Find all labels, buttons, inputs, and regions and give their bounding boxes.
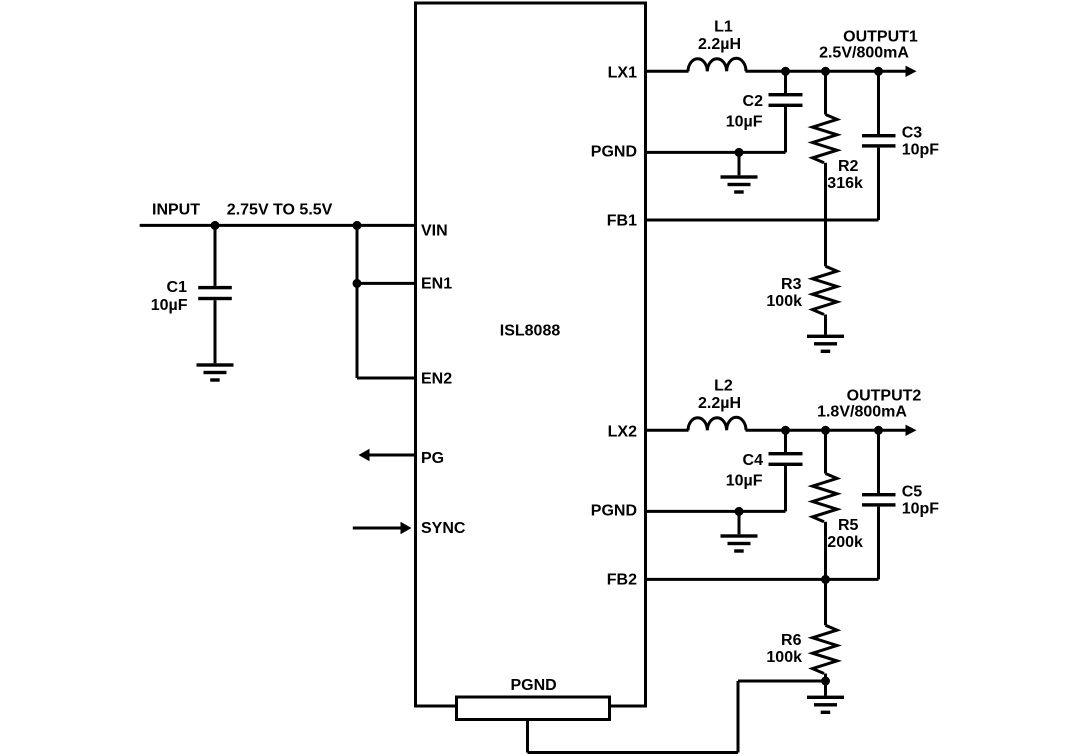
svg-text:2.2µH: 2.2µH	[698, 395, 741, 412]
wire FB1	[646, 219, 879, 222]
inductor L1	[688, 58, 746, 71]
capacitor C3 top lead wire	[877, 71, 880, 134]
junction dot LX2/C4	[781, 426, 790, 435]
svg-text:ISL8088: ISL8088	[500, 323, 561, 340]
wire VIN input rail	[140, 224, 416, 227]
svg-text:200k: 200k	[827, 534, 863, 551]
svg-text:R6: R6	[781, 632, 802, 649]
svg-text:LX2: LX2	[608, 423, 637, 440]
ground symbol below R6	[807, 696, 844, 699]
wire LX2 pin lead	[646, 429, 689, 432]
wire PGND channel 1	[646, 151, 786, 154]
capacitor C5 top lead wire	[877, 430, 880, 493]
svg-text:C4: C4	[743, 452, 764, 469]
capacitor C2 plates	[769, 93, 803, 96]
svg-text:L2: L2	[714, 378, 733, 395]
resistor R5 top lead wire	[824, 430, 827, 473]
ground symbol below PGND1	[721, 175, 758, 178]
svg-text:PG: PG	[421, 450, 444, 467]
junction dot PGND1/ground	[735, 148, 744, 157]
junction dot EN1/riser	[353, 279, 362, 288]
capacitor C4 bottom lead wire	[784, 466, 787, 511]
wire EN2	[357, 377, 416, 380]
svg-text:10µF: 10µF	[151, 297, 188, 314]
svg-text:R2: R2	[838, 158, 859, 175]
svg-text:INPUT: INPUT	[152, 202, 200, 219]
capacitor C4 plates	[769, 452, 803, 455]
wire FB2	[646, 578, 879, 581]
ground stub below PGND2	[738, 511, 741, 534]
ground symbol below R3	[807, 335, 844, 338]
resistor R3 zigzag	[813, 266, 838, 314]
svg-text:100k: 100k	[766, 649, 802, 666]
svg-text:EN2: EN2	[421, 371, 452, 388]
svg-text:SYNC: SYNC	[421, 520, 466, 537]
wire SYNC input line	[353, 527, 402, 530]
ground symbol below C1	[197, 363, 234, 366]
svg-text:PGND: PGND	[591, 502, 637, 519]
exposed pad PGND rectangle	[457, 697, 610, 720]
IC U1 ISL8088 body	[416, 3, 646, 706]
wire PGND channel 2	[646, 510, 786, 513]
junction dot FB2/R5/R6	[821, 575, 830, 584]
svg-text:2.75V TO 5.5V: 2.75V TO 5.5V	[227, 202, 333, 219]
svg-text:10µF: 10µF	[726, 473, 763, 490]
wire LX1 output rail	[746, 70, 907, 73]
svg-text:100k: 100k	[766, 293, 802, 310]
svg-text:2.5V/800mA: 2.5V/800mA	[819, 44, 909, 61]
wire R5 bottom to FB2	[824, 522, 827, 580]
wire ground return bottom horizontal	[528, 751, 739, 754]
svg-text:1.8V/800mA: 1.8V/800mA	[817, 403, 907, 420]
capacitor C2 bottom lead wire	[784, 107, 787, 152]
svg-text:PGND: PGND	[510, 677, 556, 694]
svg-text:10µF: 10µF	[726, 114, 763, 131]
junction dot LX1/R2	[821, 67, 830, 76]
capacitor C1 plates	[198, 286, 232, 289]
svg-text:316k: 316k	[827, 175, 863, 192]
resistor R6 top lead wire	[824, 579, 827, 625]
arrowhead SYNC (points right)	[401, 522, 412, 535]
wire pad drop to return	[526, 719, 529, 753]
svg-text:EN1: EN1	[421, 276, 452, 293]
capacitor C3 bottom lead wire	[877, 148, 880, 220]
svg-text:PGND: PGND	[591, 143, 637, 160]
junction dot LX2/R5	[821, 426, 830, 435]
wire EN riser vertical	[356, 225, 359, 378]
arrowhead OUTPUT2	[906, 425, 917, 436]
junction dot R6/ground return	[821, 677, 830, 686]
resistor R5 zigzag	[813, 474, 838, 522]
junction dot LX1/C2	[781, 67, 790, 76]
svg-text:L1: L1	[714, 19, 733, 36]
svg-text:R3: R3	[781, 276, 802, 293]
capacitor C1 top lead wire	[214, 225, 217, 286]
resistor R2 zigzag	[813, 115, 838, 163]
wire LX1 pin lead	[646, 70, 689, 73]
capacitor C3 plates	[862, 134, 896, 137]
svg-text:2.2µH: 2.2µH	[698, 36, 741, 53]
inductor L2	[688, 417, 746, 430]
svg-text:10pF: 10pF	[902, 142, 940, 159]
capacitor C5 bottom lead wire	[877, 507, 880, 580]
capacitor C2 top lead wire	[784, 71, 787, 93]
resistor R3 bottom lead wire	[824, 315, 827, 335]
junction dot PGND2/ground	[735, 507, 744, 516]
svg-text:OUTPUT1: OUTPUT1	[843, 29, 918, 46]
capacitor C5 plates	[862, 493, 896, 496]
wire ground return riser	[737, 681, 740, 753]
svg-text:FB1: FB1	[607, 212, 637, 229]
junction dot LX1/C3	[874, 67, 883, 76]
svg-text:VIN: VIN	[421, 222, 448, 239]
svg-text:FB2: FB2	[607, 571, 637, 588]
ground symbol below PGND2	[721, 534, 758, 537]
arrowhead PG (points left)	[359, 449, 370, 462]
junction dot LX2/C5	[874, 426, 883, 435]
junction dot input/C1	[211, 221, 220, 230]
svg-text:R5: R5	[838, 517, 859, 534]
svg-text:10pF: 10pF	[902, 501, 940, 518]
capacitor C1 bottom lead wire	[214, 300, 217, 363]
arrowhead OUTPUT1	[906, 66, 917, 77]
svg-text:C3: C3	[902, 125, 923, 142]
svg-text:OUTPUT2: OUTPUT2	[847, 388, 922, 405]
svg-text:C2: C2	[743, 93, 764, 110]
svg-text:C5: C5	[902, 484, 923, 501]
capacitor C4 top lead wire	[784, 430, 787, 452]
wire PG output line	[368, 454, 416, 457]
wire R2 bottom to FB1 and R3	[824, 163, 827, 266]
svg-text:LX1: LX1	[608, 64, 637, 81]
ground stub below R6	[824, 681, 827, 696]
svg-text:C1: C1	[167, 279, 188, 296]
ground stub below PGND1	[738, 152, 741, 175]
resistor R2 top lead wire	[824, 71, 827, 114]
wire ground return horizontal from R6	[738, 680, 826, 683]
junction dot input/EN riser	[353, 221, 362, 230]
resistor R6 zigzag	[813, 625, 838, 673]
wire LX2 output rail	[746, 429, 907, 432]
resistor R6 bottom lead wire	[824, 674, 827, 682]
wire EN1	[357, 282, 416, 285]
